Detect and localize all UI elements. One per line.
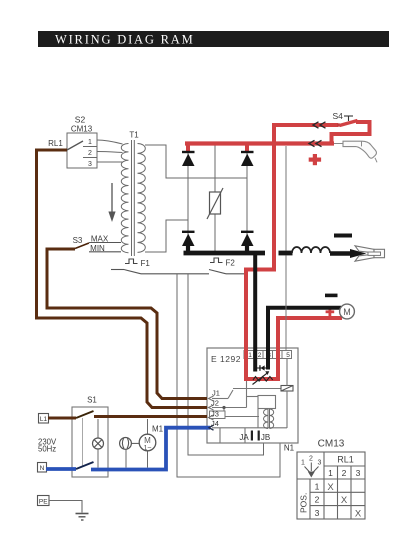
svg-text:JB: JB xyxy=(261,433,270,442)
motor minus symbol xyxy=(325,294,338,298)
svg-text:N1: N1 xyxy=(284,444,295,453)
wire N blue to S1 xyxy=(46,467,76,471)
svg-text:2: 2 xyxy=(315,495,320,505)
bridge right branch wire xyxy=(246,152,248,246)
svg-text:S4: S4 xyxy=(333,111,344,121)
fan symbol xyxy=(120,438,140,450)
svg-text:1: 1 xyxy=(315,482,320,492)
connector box J3 xyxy=(210,411,226,419)
svg-text:J4: J4 xyxy=(211,419,219,428)
table row numbers xyxy=(315,482,320,519)
fan stem xyxy=(125,449,127,467)
svg-text:CM13: CM13 xyxy=(71,125,93,134)
svg-text:1: 1 xyxy=(88,139,92,146)
label 230V 50Hz xyxy=(38,438,57,454)
svg-text:E 1292: E 1292 xyxy=(211,354,241,364)
svg-text:S1: S1 xyxy=(87,396,97,405)
svg-text:PE: PE xyxy=(39,499,48,506)
wire pot to J2 xyxy=(246,381,248,408)
svg-text:POS.: POS. xyxy=(299,493,309,513)
ground symbol xyxy=(76,514,89,521)
thermal cutout F1 symbol xyxy=(125,259,138,264)
wire black DC- bus right xyxy=(279,251,293,256)
svg-text:1~: 1~ xyxy=(144,445,152,452)
svg-text:F1: F1 xyxy=(141,259,151,268)
terminal N box xyxy=(38,463,47,473)
wire S2 pin1 to T1 tap xyxy=(97,140,123,144)
component box on board xyxy=(247,396,276,429)
svg-text:X: X xyxy=(327,482,334,493)
svg-text:MIN: MIN xyxy=(90,244,105,253)
wire S2 pin3 to T1 tap xyxy=(97,161,123,163)
svg-text:1: 1 xyxy=(328,468,333,478)
wire feed motor M xyxy=(340,304,355,319)
table column numbers xyxy=(328,468,361,478)
wire S3 common brown to J1 xyxy=(47,249,207,399)
S1 lower contact arm xyxy=(76,462,94,469)
wire T1 secondary top to bridge AC node xyxy=(145,145,247,178)
svg-text:CM13: CM13 xyxy=(318,439,345,450)
wire red S4 return to bus xyxy=(332,122,370,144)
svg-text:3: 3 xyxy=(315,508,320,518)
plus output symbol xyxy=(309,154,321,165)
svg-text:2: 2 xyxy=(88,150,92,157)
wire black DC- bus left xyxy=(184,251,266,256)
table selector arrow diagram xyxy=(301,456,322,478)
svg-text:RL1: RL1 xyxy=(48,139,63,148)
terminal L1 box xyxy=(39,414,49,424)
wire bus sense to board pin5 (upper part) xyxy=(285,146,287,251)
wire thermal line to board JB xyxy=(177,274,280,477)
transformer T1 secondary winding xyxy=(138,144,146,253)
svg-text:J1: J1 xyxy=(212,389,220,398)
svg-text:M: M xyxy=(343,307,351,317)
svg-text:3: 3 xyxy=(318,460,322,467)
S2 selector arm xyxy=(67,141,83,150)
svg-text:L1: L1 xyxy=(40,416,48,423)
wire black bus to board pin2 xyxy=(253,253,257,372)
fan motor M1 xyxy=(139,434,156,452)
svg-text:RL1: RL1 xyxy=(337,455,354,465)
svg-text:S2: S2 xyxy=(75,115,86,125)
lamp H1 xyxy=(93,438,104,449)
JA terminal bar xyxy=(251,431,253,441)
svg-text:1: 1 xyxy=(301,460,305,467)
varistor branch wire xyxy=(214,144,216,254)
wire bus sense to board pin5 (lower part) xyxy=(285,256,287,352)
svg-text:X: X xyxy=(341,495,348,506)
bridge left branch wire xyxy=(187,152,189,246)
S2 pin labels xyxy=(88,139,92,168)
black stub D4 to bus xyxy=(245,245,249,253)
S3 MIN tap wire xyxy=(89,251,121,253)
wire L1 brown to S1 xyxy=(48,417,76,420)
terminal J3 line xyxy=(209,415,260,420)
potentiometer on board xyxy=(253,371,273,384)
control board E1292 outline xyxy=(207,348,298,443)
red stub to diode D2 xyxy=(245,144,249,153)
motor plus symbol xyxy=(326,308,335,317)
switch S1 box xyxy=(72,407,108,477)
transformer T1 primary winding xyxy=(121,144,128,253)
wire red trigger loop: motor+ / pin4 / pot / pin1 / S4 xyxy=(246,124,342,380)
svg-text:M: M xyxy=(144,436,151,445)
terminal J2 line xyxy=(209,405,247,411)
output choke coil xyxy=(292,247,330,253)
wire T1 secondary bottom to bridge AC node xyxy=(145,220,188,252)
wire thermal line to board JA xyxy=(188,274,264,455)
terminal J1 line and relay arm xyxy=(209,389,282,402)
node S4 pivot xyxy=(337,123,341,127)
motor M1 stems xyxy=(147,419,149,468)
CM13 function table xyxy=(297,452,365,519)
svg-text:M1: M1 xyxy=(152,425,164,434)
varistor RV1 xyxy=(207,188,223,219)
svg-text:T1: T1 xyxy=(129,131,139,140)
wire red DC+ bus xyxy=(185,141,334,145)
terminal J4 line xyxy=(209,425,288,443)
svg-text:2: 2 xyxy=(309,456,313,463)
wire S2 pin2 to T1 tap xyxy=(97,152,123,153)
S3 MAX tap wire xyxy=(89,242,121,244)
PE wire xyxy=(49,501,82,513)
wire RL1 brown: S2 common to J2 xyxy=(37,150,208,408)
thermal cutout F2 symbol xyxy=(210,258,223,263)
S4 actuator tick xyxy=(344,116,353,121)
svg-text:WIRING DIAG RAM: WIRING DIAG RAM xyxy=(55,33,195,47)
S1 upper contact arm xyxy=(76,411,94,418)
svg-text:J2: J2 xyxy=(211,399,219,408)
terminal PE box xyxy=(38,496,50,506)
diode D4 xyxy=(241,231,254,246)
S4 switch arm xyxy=(340,121,358,126)
welding torch xyxy=(343,141,377,162)
connector chevrons on S4 wire xyxy=(313,122,326,128)
svg-text:N: N xyxy=(40,465,45,472)
svg-text:3: 3 xyxy=(356,468,361,478)
work clamp xyxy=(355,246,385,261)
node J2 junction dot xyxy=(222,406,225,409)
lamp stems xyxy=(97,419,99,468)
diode D2 xyxy=(241,151,254,166)
clamp cable arrow xyxy=(350,249,366,258)
diode D1 xyxy=(182,151,195,166)
svg-text:MAX: MAX xyxy=(91,235,109,244)
svg-text:3: 3 xyxy=(88,161,92,168)
torch cable lead xyxy=(334,143,344,145)
connector chevrons on torch wire xyxy=(309,140,322,146)
svg-text:50Hz: 50Hz xyxy=(38,445,56,454)
wire S1 brown to J3 xyxy=(94,415,207,418)
svg-text:5: 5 xyxy=(286,352,290,359)
board diode across pins 2-3 xyxy=(257,365,267,371)
svg-text:S3: S3 xyxy=(73,236,83,245)
wire red S4 feed xyxy=(272,123,338,127)
S3 switch arm xyxy=(75,243,89,249)
svg-text:F2: F2 xyxy=(226,259,236,268)
wire black motor minus xyxy=(268,308,341,370)
JB terminal bar xyxy=(258,431,260,441)
svg-text:X: X xyxy=(355,508,362,519)
diode D3 xyxy=(182,231,195,246)
red stub to diode D1 xyxy=(186,144,190,153)
title bar xyxy=(38,31,389,47)
strip pin numbers xyxy=(248,352,290,359)
svg-text:2: 2 xyxy=(342,468,347,478)
svg-text:1: 1 xyxy=(248,352,252,359)
table X marks xyxy=(327,482,362,520)
board terminal strip 1-5 xyxy=(244,351,292,359)
J4 chevron xyxy=(209,425,214,430)
wire choke to clamp xyxy=(330,251,352,255)
board transformer windings xyxy=(264,409,274,429)
thermal contact line F1-F2 xyxy=(111,270,244,274)
svg-text:J3: J3 xyxy=(211,409,219,418)
black stub D3 to bus xyxy=(186,245,190,253)
transformer T1 core xyxy=(132,140,135,256)
minus output symbol xyxy=(334,234,352,238)
svg-text:2: 2 xyxy=(258,352,262,359)
switch S2 connector box xyxy=(67,133,97,168)
S1 coupling link xyxy=(82,418,84,466)
wire blue N to J4 xyxy=(91,428,210,470)
relay K1 on board xyxy=(281,359,293,429)
svg-text:JA: JA xyxy=(239,433,249,442)
T1 regulation arrow xyxy=(108,183,115,222)
